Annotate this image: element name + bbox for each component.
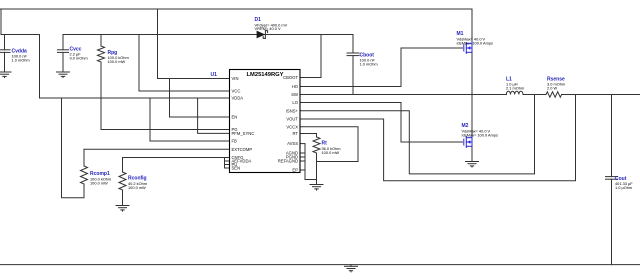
svg-text:U1: U1 <box>211 72 218 78</box>
ground on bottom rail <box>345 265 358 272</box>
node Cvdda label <box>12 49 30 63</box>
node Cout label <box>615 176 633 190</box>
node Rcomp1 label <box>90 171 111 186</box>
wire VCCX return <box>300 127 358 162</box>
svg-text:1.0 mOhm: 1.0 mOhm <box>12 58 30 63</box>
wire Rcomp1 branch riser from VDDA <box>62 98 85 198</box>
wire Cvdda top horizontal to VDDA riser <box>5 35 40 99</box>
wire HO to M1 gate <box>300 48 463 87</box>
svg-text:VIN: VIN <box>232 76 239 81</box>
wire ISNS+ sense loop <box>300 95 535 174</box>
svg-text:VCCX: VCCX <box>286 124 298 129</box>
svg-text:SW: SW <box>291 92 298 97</box>
wire bottom ground rail <box>0 264 640 266</box>
svg-text:EP: EP <box>292 168 298 173</box>
svg-text:IdsMax= 100.0 Amps: IdsMax= 100.0 Amps <box>462 133 498 138</box>
wire M2 drain from SW <box>471 95 473 138</box>
svg-text:VDDA: VDDA <box>232 96 244 101</box>
svg-text:EXTCOMP: EXTCOMP <box>232 147 253 152</box>
wire EN riser and horizontal <box>170 79 230 118</box>
wire L1 to Rsense <box>523 94 546 96</box>
transistor M1 <box>464 42 472 54</box>
wire AVSS AGND PGND REFAGND EP ground bus <box>300 144 317 180</box>
svg-text:LM25149RGY: LM25149RGY <box>246 72 283 78</box>
svg-text:CBOOT: CBOOT <box>283 75 298 80</box>
svg-text:100.0 mW: 100.0 mW <box>108 59 126 64</box>
ground under Cvdda <box>0 71 11 78</box>
wire VCC feed riser <box>138 35 140 92</box>
wire RT horizontal <box>300 134 317 138</box>
wire VIN horizontal to U1 <box>158 78 230 80</box>
wire CBOOT pin riser <box>300 35 321 78</box>
inductor L1 <box>506 91 523 94</box>
wire PFM_SYNC riser and horizontal <box>198 98 230 133</box>
wire VCC horizontal to U1 <box>139 90 230 92</box>
wire VCC node horizontal (Cvcc to D1 anode) <box>63 34 255 36</box>
svg-text:100.0 mW: 100.0 mW <box>90 181 108 186</box>
svg-text:ISNS+: ISNS+ <box>286 108 299 113</box>
wire VDDA horizontal to U1 <box>40 97 230 99</box>
wire EXTCOMP horizontal to U1 <box>84 148 230 150</box>
transistor M2 <box>464 136 472 148</box>
wire D1 cathode to Cboot <box>265 34 353 36</box>
resistor Rconfig <box>119 158 126 206</box>
node Rpg label <box>108 50 129 64</box>
node Cvcc label <box>70 47 88 61</box>
svg-text:VOUT: VOUT <box>286 117 298 122</box>
wire M1 source to SW <box>471 52 473 94</box>
svg-text:2.0 W: 2.0 W <box>547 86 557 91</box>
capacitor Cout <box>606 95 618 265</box>
wire LO to M2 gate <box>300 103 463 143</box>
svg-text:VCC: VCC <box>232 89 241 94</box>
svg-text:REFAGND: REFAGND <box>278 159 298 164</box>
wire top input rail <box>0 8 472 10</box>
svg-text:RT: RT <box>292 131 298 136</box>
svg-text:AVSS: AVSS <box>287 141 298 146</box>
wire PG horizontal to U1 <box>101 129 230 131</box>
svg-text:FB: FB <box>232 139 238 144</box>
svg-text:100.0 mW: 100.0 mW <box>128 185 146 190</box>
svg-text:SEN: SEN <box>232 166 241 171</box>
resistor Rsense <box>546 92 562 97</box>
wire FB riser and horizontal <box>150 98 230 141</box>
svg-text:2.1 mOhm: 2.1 mOhm <box>506 86 524 91</box>
wire VOUT sense loop <box>300 95 576 181</box>
resistor Rcomp1 <box>81 149 88 184</box>
svg-text:PFM_SYNC: PFM_SYNC <box>232 131 255 136</box>
resistor Rt <box>313 137 320 185</box>
svg-text:LO: LO <box>292 100 298 105</box>
svg-text:1.0 µOhm: 1.0 µOhm <box>615 185 632 190</box>
capacitor Cvcc <box>58 35 69 71</box>
svg-text:HO: HO <box>292 84 299 89</box>
svg-text:100.0 mW: 100.0 mW <box>322 150 340 155</box>
wire CNFG bus from Rconfig <box>123 158 230 169</box>
node M2 label <box>462 123 498 138</box>
resistor Rpg <box>98 35 105 130</box>
svg-text:1.0 mOhm: 1.0 mOhm <box>360 62 378 67</box>
node Cboot label <box>360 53 378 67</box>
capacitor Cboot <box>347 35 359 95</box>
svg-text:EN: EN <box>232 115 238 120</box>
ground under Rconfig <box>116 206 129 212</box>
node Rconfig label <box>128 176 147 191</box>
node L1 label <box>506 77 524 91</box>
ground under M2 <box>466 162 479 168</box>
diode D1 <box>255 31 268 39</box>
node Rsense label <box>547 77 565 91</box>
node D1 label <box>255 17 288 31</box>
wire Rsense to right edge <box>562 94 640 96</box>
node M1 label <box>457 31 493 46</box>
ground under Cvcc <box>57 71 70 78</box>
svg-text:VRRM= 40.0 V: VRRM= 40.0 V <box>255 26 281 31</box>
op-amp U1 IC body LM25149RGY <box>230 70 301 173</box>
wire SW horizontal from U1 to L1 <box>300 94 506 96</box>
svg-text:IdsMax= 100.0 Amps: IdsMax= 100.0 Amps <box>457 41 493 46</box>
svg-text:9.0 mOhm: 9.0 mOhm <box>70 56 88 61</box>
wire VIN riser from top rail <box>157 9 159 79</box>
capacitor Cvdda <box>0 35 10 71</box>
wire M1 drain from top rail <box>471 9 473 44</box>
ground under Rt <box>310 185 323 191</box>
node Rt label <box>322 141 341 156</box>
wire M2 source down <box>471 146 473 161</box>
wire input rail left drop to VCC node <box>1 9 5 35</box>
